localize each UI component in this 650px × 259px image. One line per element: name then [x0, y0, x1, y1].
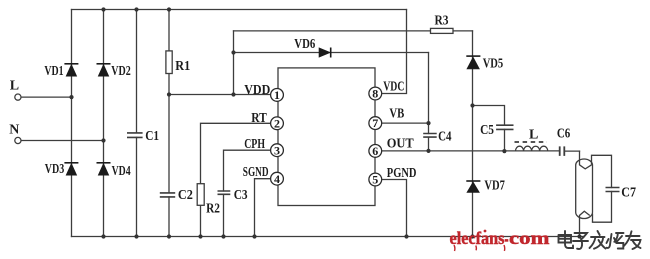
wire bottom ground rail: [72, 236, 584, 238]
svg-text:L: L: [10, 78, 19, 93]
svg-text:CPH: CPH: [244, 137, 265, 152]
svg-text:PGND: PGND: [387, 166, 417, 181]
pin 6: [369, 144, 382, 158]
svg-text:7: 7: [372, 116, 378, 130]
terminal L: [15, 94, 21, 100]
svg-text:com: com: [509, 228, 550, 248]
pin 5: [369, 173, 382, 187]
char fa: [590, 231, 606, 249]
wire VD5/VD7 column: [472, 31, 474, 237]
node L / bridge: [69, 95, 73, 99]
pin 4: [271, 172, 284, 186]
svg-text:R3: R3: [435, 14, 449, 29]
svg-text:C7: C7: [621, 185, 636, 200]
svg-text:3: 3: [274, 143, 280, 157]
node gnd / C1: [134, 234, 138, 238]
diode VD7: [466, 181, 480, 193]
svg-text:VD1: VD1: [44, 64, 63, 79]
svg-text:VD6: VD6: [294, 37, 315, 52]
node top rail / C1: [134, 7, 138, 11]
svg-text:C1: C1: [145, 129, 159, 144]
node top rail / R1: [167, 7, 171, 11]
svg-text:C5: C5: [480, 123, 494, 138]
wire VDD node to pin 1: [169, 94, 271, 96]
capacitor C6: [560, 146, 565, 156]
char you: [624, 231, 641, 249]
wire L input lead: [21, 96, 72, 98]
node gnd / lamp: [577, 234, 581, 238]
wire C1 column: [136, 10, 138, 237]
svg-text:L: L: [529, 128, 538, 143]
resistor R3: [431, 28, 454, 33]
node gnd / VD2 col: [101, 234, 105, 238]
wire VD6 branch: [234, 52, 429, 54]
wire CPH pin 3 to C3: [224, 150, 272, 236]
wire PGND pin 5 to ground: [382, 180, 407, 237]
svg-text:R1: R1: [175, 59, 190, 74]
node top rail / VD2: [101, 7, 105, 11]
svg-text:VDD: VDD: [244, 83, 270, 98]
wire VD6 to VB / C4 column: [428, 53, 430, 151]
svg-text:OUT: OUT: [387, 136, 415, 151]
resistor R1: [166, 51, 172, 74]
wire R1/C2 column: [168, 10, 170, 237]
char shao: [607, 233, 624, 249]
svg-text:1: 1: [274, 88, 280, 102]
node gnd / VD7: [470, 234, 474, 238]
diode VD4: [97, 163, 111, 175]
svg-text:VD2: VD2: [111, 64, 131, 79]
node gnd / R2: [198, 234, 202, 238]
node VD5 / C5: [470, 103, 474, 107]
svg-text:elecfans: elecfans: [450, 228, 505, 248]
wire OUT pin 6 to lamp: [382, 150, 580, 152]
node gnd / C2: [167, 234, 171, 238]
svg-text:VD3: VD3: [45, 162, 65, 177]
svg-text:VDC: VDC: [383, 80, 404, 95]
wire VD2/VD4 column: [103, 10, 105, 237]
svg-text:RT: RT: [251, 111, 267, 126]
node VDD / riser: [231, 92, 235, 96]
node OUT / C4: [426, 149, 430, 153]
wire C5 branch: [473, 106, 505, 152]
svg-text:C6: C6: [557, 127, 570, 142]
node N / bridge: [101, 138, 105, 142]
svg-text:VD7: VD7: [484, 179, 505, 194]
diode VD6: [319, 48, 331, 58]
svg-text:4: 4: [274, 172, 280, 186]
capacitor C3: [218, 191, 231, 194]
wire VDC pin 8 to top rail: [382, 10, 407, 94]
wire lamp top lead: [579, 151, 581, 164]
terminal N: [15, 137, 21, 143]
pin 1: [271, 88, 284, 102]
node VB / C4: [426, 121, 430, 125]
lamp filament bottom: [579, 211, 589, 215]
svg-text:8: 8: [372, 87, 378, 101]
capacitor C1: [127, 133, 143, 138]
pin 3: [271, 143, 284, 157]
pin 8: [369, 87, 382, 101]
wire SGND pin 4 to ground: [255, 179, 272, 237]
diode VD3: [64, 163, 78, 175]
watermark elecfans.com: [450, 228, 551, 251]
node gnd / SGND: [252, 234, 256, 238]
inductor L: [515, 142, 548, 151]
node gnd / PGND: [404, 234, 408, 238]
wire top rail: [72, 9, 407, 11]
svg-text:C3: C3: [234, 188, 248, 203]
svg-text:5: 5: [372, 173, 378, 187]
wire N input lead: [21, 140, 104, 142]
node VDD / R1: [167, 92, 171, 96]
wire VB pin 7: [382, 122, 429, 124]
svg-text:VD4: VD4: [112, 164, 131, 179]
diode VD1: [64, 64, 78, 76]
svg-text:N: N: [9, 122, 19, 137]
lamp filament top: [579, 165, 591, 169]
svg-text:6: 6: [372, 144, 378, 158]
node gnd / C3: [221, 234, 225, 238]
node OUT / C5: [502, 149, 506, 153]
node VD6 / riser: [231, 50, 235, 54]
pin 7: [369, 116, 382, 130]
svg-text:C2: C2: [178, 188, 193, 203]
capacitor C5: [496, 125, 513, 129]
wire VD1/VD3 column: [71, 10, 73, 237]
IC U1 body: [278, 68, 375, 206]
capacitor C4: [423, 134, 437, 138]
char dian: [559, 231, 574, 248]
capacitor C2: [160, 193, 175, 197]
svg-text:VD5: VD5: [483, 57, 504, 72]
pin 2: [271, 116, 284, 130]
lamp tube: [576, 159, 593, 222]
svg-text:R2: R2: [206, 202, 220, 217]
resistor R2: [197, 184, 204, 206]
char zi: [573, 233, 588, 249]
capacitor C7: [606, 188, 620, 192]
wire lamp bottom lead: [579, 216, 581, 237]
wire C7 loop: [592, 155, 612, 222]
svg-text:2: 2: [274, 116, 280, 130]
wire VDD riser to VD6/R3: [233, 31, 235, 95]
svg-text:SGND: SGND: [243, 165, 269, 180]
svg-text:VB: VB: [389, 107, 404, 122]
diode VD5: [466, 56, 480, 69]
wire R3 branch top: [234, 30, 473, 32]
svg-text:C4: C4: [438, 130, 451, 145]
watermark chinese 电子发烧友: [559, 231, 641, 249]
wire RT pin 2 to R2: [201, 123, 272, 236]
diode VD2: [97, 64, 111, 76]
wire lamp right pin to C7 return: [592, 214, 594, 223]
